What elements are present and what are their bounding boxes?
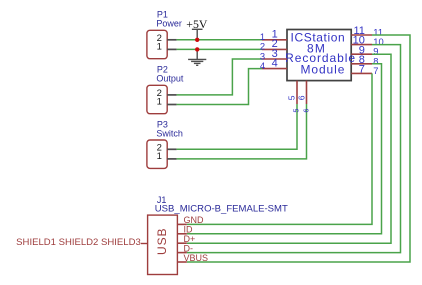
wire module pin8 to J1 ID bbox=[187, 64, 382, 234]
wire module pin10 to J1 D- bbox=[187, 45, 401, 253]
connector J1 pin GND stub bbox=[177, 223, 186, 225]
connector J1 SHIELD pin stub bbox=[141, 243, 148, 245]
svg-text:VBUS: VBUS bbox=[184, 253, 209, 263]
svg-text:Output: Output bbox=[156, 74, 184, 84]
connector P3 pin 2 stub bbox=[167, 148, 176, 150]
svg-text:Switch: Switch bbox=[156, 128, 183, 138]
connector P2 pin 2 stub bbox=[167, 94, 176, 96]
connector J1 body bbox=[148, 215, 178, 274]
connector P1 pin 2 stub bbox=[167, 39, 176, 41]
wire P3 pin2 to module pin5 bbox=[177, 104, 297, 149]
module pin 9 stub bbox=[351, 53, 372, 55]
wire P3 pin1 to module pin6 bbox=[177, 104, 307, 159]
module pin 10 stub bbox=[351, 44, 372, 46]
svg-text:1: 1 bbox=[157, 41, 162, 52]
svg-text:7: 7 bbox=[359, 64, 365, 76]
svg-text:USB: USB bbox=[155, 228, 169, 255]
wire net GND : P1 pin1 to module pin2 bbox=[177, 48, 262, 50]
svg-text:5: 5 bbox=[292, 108, 301, 112]
connector P3 body bbox=[147, 140, 167, 168]
wire module pin9 to J1 D+ bbox=[187, 54, 391, 243]
svg-text:4: 4 bbox=[260, 60, 265, 71]
module pin 5 stub bbox=[296, 81, 298, 104]
svg-text:Module: Module bbox=[301, 62, 346, 76]
+5V supply symbol bbox=[192, 29, 203, 40]
connector J1 pin VBUS stub bbox=[177, 261, 186, 263]
svg-text:6: 6 bbox=[296, 95, 306, 100]
wire module pin11 to J1 VBUS bbox=[187, 35, 410, 262]
svg-text:USB_MICRO-B_FEMALE-SMT: USB_MICRO-B_FEMALE-SMT bbox=[155, 204, 289, 214]
module pin 1 stub bbox=[262, 39, 287, 41]
module pin 11 stub bbox=[351, 34, 372, 36]
connector P1 pin 1 stub bbox=[167, 48, 176, 50]
connector J1 pin D+ stub bbox=[177, 242, 186, 244]
module pin 7 stub bbox=[351, 72, 372, 74]
module pin 8 stub bbox=[351, 63, 372, 65]
wire net +5V : P1 pin2 to module pin1 bbox=[177, 39, 262, 41]
connector P1 body bbox=[147, 30, 167, 58]
svg-text:4: 4 bbox=[272, 57, 278, 69]
svg-text:1: 1 bbox=[157, 151, 162, 162]
svg-text:SHIELD1 SHIELD2 SHIELD3: SHIELD1 SHIELD2 SHIELD3 bbox=[16, 237, 141, 247]
junction on GND net bbox=[195, 47, 199, 51]
connector P2 pin 1 stub bbox=[167, 104, 176, 106]
connector P3 pin 1 stub bbox=[167, 158, 176, 160]
svg-text:5: 5 bbox=[287, 95, 297, 100]
svg-text:7: 7 bbox=[373, 65, 378, 76]
module pin 4 stub bbox=[262, 68, 287, 70]
wire module pin7 to J1 GND bbox=[187, 73, 372, 224]
module pin 2 stub bbox=[262, 48, 287, 50]
connector J1 pin D- stub bbox=[177, 252, 186, 254]
connector P2 body bbox=[147, 85, 167, 113]
ground symbol bbox=[188, 49, 206, 65]
svg-text:+5V: +5V bbox=[186, 17, 208, 31]
module pin 3 stub bbox=[262, 58, 287, 60]
module U1 body bbox=[287, 30, 351, 81]
module pin 6 stub bbox=[306, 81, 308, 104]
svg-text:Power: Power bbox=[156, 19, 182, 29]
svg-text:1: 1 bbox=[157, 96, 162, 107]
wire P2 pin1 to module pin4 bbox=[177, 69, 262, 105]
svg-text:6: 6 bbox=[302, 108, 311, 112]
wire P2 pin2 to module pin3 bbox=[177, 59, 262, 95]
connector J1 pin ID stub bbox=[177, 233, 186, 235]
junction on +5V net bbox=[195, 38, 199, 42]
